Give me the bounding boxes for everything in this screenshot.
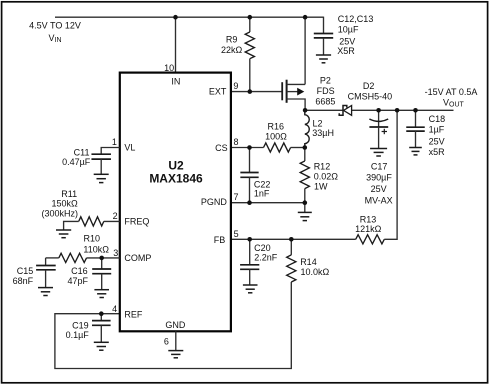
capacitor C17 <box>369 110 388 148</box>
node top rail / P2 source <box>303 15 308 20</box>
label MAX1846 <box>149 172 203 186</box>
svg-text:R16: R16 <box>268 121 285 131</box>
node COMP / C16 <box>99 256 104 261</box>
label VIN <box>48 33 61 44</box>
wire REF loop <box>55 282 291 369</box>
svg-text:6685: 6685 <box>315 97 335 107</box>
resistor R13 <box>356 235 385 244</box>
pin name GND <box>165 320 186 330</box>
svg-text:D2: D2 <box>363 81 375 91</box>
pin name VL <box>124 143 135 153</box>
svg-text:5: 5 <box>234 229 239 239</box>
ground R11 <box>56 230 71 238</box>
svg-text:10.0kΩ: 10.0kΩ <box>301 267 330 277</box>
wire VL pin 1 <box>101 148 120 155</box>
inductor L2 <box>305 110 309 147</box>
label 25V C17 <box>371 184 387 194</box>
label R11 <box>61 189 77 199</box>
transistor P2 gate bar <box>281 82 283 100</box>
label 10uF <box>338 25 359 35</box>
label C15 <box>17 266 34 276</box>
label 2.2nF <box>254 253 278 263</box>
svg-text:C16: C16 <box>71 266 88 276</box>
svg-text:4.5V TO 12V: 4.5V TO 12V <box>29 21 81 31</box>
label 1nF <box>254 189 270 199</box>
capacitor C16 <box>92 258 111 290</box>
svg-text:110kΩ: 110kΩ <box>83 245 109 255</box>
node VOUT / FB riser <box>395 108 400 113</box>
svg-text:C11: C11 <box>74 147 90 157</box>
node VOUT / C17 <box>376 108 381 113</box>
wire CS pin 8 segment <box>231 147 264 149</box>
wire P2 source drop <box>304 17 306 85</box>
transistor P2 top arm <box>287 83 306 85</box>
label 150k <box>51 199 78 209</box>
label R14 <box>300 257 317 267</box>
svg-text:8: 8 <box>234 137 239 147</box>
label input voltage 4.5V TO 12V <box>29 21 81 31</box>
svg-text:COMP: COMP <box>124 253 151 263</box>
label 0.47uF <box>62 157 91 167</box>
svg-text:X5R: X5R <box>337 46 355 56</box>
label R10 <box>84 233 101 243</box>
svg-text:2.2nF: 2.2nF <box>254 253 278 263</box>
wire R13 to feedback riser <box>384 110 397 239</box>
diode D2 triangle <box>344 106 352 116</box>
svg-text:C12,C13: C12,C13 <box>338 14 374 24</box>
wire C12,C13 drop from top rail <box>323 17 325 34</box>
svg-text:EXT: EXT <box>209 87 227 97</box>
capacitor C22 <box>240 148 258 203</box>
node REF / C19 <box>99 311 104 316</box>
svg-text:25V: 25V <box>339 36 355 46</box>
svg-text:47pF: 47pF <box>67 276 88 286</box>
node top rail / R9 <box>248 15 253 20</box>
svg-text:VL: VL <box>124 143 135 153</box>
label x5R <box>429 147 446 157</box>
svg-text:C20: C20 <box>254 243 271 253</box>
svg-text:PGND: PGND <box>201 197 228 207</box>
resistor R10 <box>46 253 120 262</box>
label C17 <box>371 161 388 171</box>
svg-text:C18: C18 <box>429 114 446 124</box>
label 1W <box>314 181 328 191</box>
pin number 10 <box>164 63 174 73</box>
svg-text:25V: 25V <box>371 184 387 194</box>
label -15V AT 0.5A <box>425 87 478 97</box>
pin number 9 <box>233 81 238 91</box>
svg-text:22kΩ: 22kΩ <box>221 45 243 55</box>
label X5R C12 <box>337 46 355 56</box>
svg-text:CMSH5-40: CMSH5-40 <box>348 91 393 101</box>
node EXT / R9 <box>248 89 253 94</box>
svg-text:C17: C17 <box>371 161 388 171</box>
wire R16 to node <box>291 147 305 149</box>
svg-text:GND: GND <box>165 320 186 330</box>
pin name FREQ <box>124 216 149 226</box>
pin number 2 <box>113 211 118 221</box>
label C20 <box>254 243 271 253</box>
wire VIN top rail <box>55 16 324 18</box>
pin number 5 <box>234 229 239 239</box>
pin name EXT <box>209 87 227 97</box>
label C22 <box>254 180 271 190</box>
svg-text:R12: R12 <box>314 161 331 171</box>
op-amp U2 MAX1846 IC body <box>120 73 231 332</box>
label MV-AX <box>365 195 393 205</box>
svg-text:MV-AX: MV-AX <box>365 195 393 205</box>
node CS / C22 <box>247 145 252 150</box>
label VOUT <box>443 98 465 109</box>
wire diode to VOUT <box>351 109 453 111</box>
svg-text:R13: R13 <box>360 215 377 225</box>
label 121k <box>355 224 382 234</box>
pin number 7 <box>234 192 239 202</box>
capacitor C12,C13 <box>314 34 333 56</box>
svg-text:1nF: 1nF <box>254 189 270 199</box>
wire EXT pin 9 to gate <box>231 91 282 93</box>
svg-text:4: 4 <box>112 304 117 314</box>
label C18 <box>429 114 446 124</box>
label FDS <box>317 86 335 96</box>
label 68nF <box>13 276 34 286</box>
svg-text:FB: FB <box>214 235 226 245</box>
wire pin 10 IN stub <box>175 17 177 72</box>
svg-text:1µF: 1µF <box>429 125 445 135</box>
wire drain node to diode <box>305 109 343 111</box>
label L2 <box>313 118 323 128</box>
transistor P2 channel bar <box>286 80 288 103</box>
resistor R12 <box>300 148 309 203</box>
node CS / L2 / R12 <box>303 145 308 150</box>
ground GND pin 6 <box>168 331 183 358</box>
svg-text:150kΩ: 150kΩ <box>51 199 78 209</box>
pin number 4 <box>112 304 117 314</box>
label R16 <box>268 121 285 131</box>
label 47pF <box>67 276 88 286</box>
svg-text:100Ω: 100Ω <box>265 131 287 141</box>
ground C11 <box>94 174 109 182</box>
label 100ohm <box>265 131 287 141</box>
pin name FB <box>214 235 226 245</box>
svg-text:FDS: FDS <box>317 86 335 96</box>
node PGND / R12 <box>303 200 308 205</box>
wire PGND pin 7 <box>231 202 305 204</box>
label R12 <box>314 161 331 171</box>
label 1uF <box>429 125 445 135</box>
svg-text:25V: 25V <box>429 137 445 147</box>
svg-text:CS: CS <box>215 143 228 153</box>
ground PGND node <box>298 203 312 221</box>
capacitor C11 <box>91 154 111 174</box>
capacitor C20 <box>240 239 259 285</box>
diode D2 cathode <box>339 106 347 116</box>
node VOUT / C18 <box>413 108 418 113</box>
svg-text:IN: IN <box>171 77 180 87</box>
label 25V C18 <box>429 137 445 147</box>
svg-text:-15V AT 0.5A: -15V AT 0.5A <box>425 87 478 97</box>
ground C19 <box>94 342 109 350</box>
label D2 <box>363 81 375 91</box>
node P2 drain <box>303 108 308 113</box>
capacitor C18 <box>406 110 425 147</box>
label 22k <box>221 45 243 55</box>
svg-text:1: 1 <box>112 137 117 147</box>
resistor R16 <box>264 143 291 152</box>
svg-text:2: 2 <box>113 211 118 221</box>
svg-text:3: 3 <box>113 248 118 258</box>
svg-text:R10: R10 <box>84 233 101 243</box>
capacitor C15 <box>36 258 56 288</box>
label 25V C12 <box>339 36 355 46</box>
svg-text:R14: R14 <box>300 257 317 267</box>
label 300kHz <box>42 208 79 218</box>
node top rail / IN <box>173 15 178 20</box>
pin number 8 <box>234 137 239 147</box>
svg-text:MAX1846: MAX1846 <box>149 172 203 186</box>
svg-text:0.02Ω: 0.02Ω <box>314 171 339 181</box>
svg-text:0.47µF: 0.47µF <box>62 157 91 167</box>
ground C12,C13 <box>316 55 331 63</box>
svg-text:10: 10 <box>164 63 174 73</box>
svg-text:(300kHz): (300kHz) <box>42 208 79 218</box>
resistor R9 <box>245 17 254 91</box>
label C12,C13 <box>338 14 374 24</box>
label R13 <box>360 215 377 225</box>
svg-text:C15: C15 <box>17 266 34 276</box>
svg-text:9: 9 <box>233 81 238 91</box>
ground C18 <box>409 148 422 155</box>
svg-text:6: 6 <box>164 337 169 347</box>
node FB / C20 <box>247 237 252 242</box>
wire FB pin 5 segment <box>231 238 356 240</box>
svg-text:1W: 1W <box>314 181 328 191</box>
label C19 <box>72 321 89 331</box>
pin name REF <box>124 309 143 319</box>
label CMSH5-40 <box>348 91 393 101</box>
ground C15 <box>38 288 53 296</box>
svg-text:P2: P2 <box>320 75 331 85</box>
svg-text:L2: L2 <box>313 118 323 128</box>
pin name CS <box>215 143 228 153</box>
capacitor C19 <box>92 314 111 343</box>
node PGND / C22 <box>247 200 252 205</box>
label C11 <box>74 147 90 157</box>
ground C17 <box>370 149 387 157</box>
label U2 <box>168 159 184 173</box>
label 6685 <box>315 97 335 107</box>
resistor R11 <box>64 217 120 230</box>
svg-text:390µF: 390µF <box>366 173 392 183</box>
ground C20 <box>243 285 258 293</box>
pin number 3 <box>113 248 118 258</box>
pin name COMP <box>124 253 151 263</box>
svg-text:68nF: 68nF <box>13 276 34 286</box>
pin name IN <box>171 77 180 87</box>
svg-text:7: 7 <box>234 192 239 202</box>
label 390uF <box>366 173 392 183</box>
pin number 1 <box>112 137 117 147</box>
transistor P2 bottom arm <box>287 99 306 110</box>
label P2 <box>320 75 331 85</box>
svg-text:U2: U2 <box>168 159 184 173</box>
ground C16 <box>94 290 109 298</box>
svg-text:R9: R9 <box>226 34 238 44</box>
svg-text:0.1µF: 0.1µF <box>66 330 90 340</box>
svg-text:121kΩ: 121kΩ <box>355 224 382 234</box>
transistor P2 body arm <box>287 91 298 93</box>
svg-text:10µF: 10µF <box>338 25 359 35</box>
resistor R14 <box>287 239 296 282</box>
label R9 <box>226 34 238 44</box>
label 0.02ohm <box>314 171 339 181</box>
label 10.0k <box>301 267 330 277</box>
pin number 6 <box>164 337 169 347</box>
svg-text:REF: REF <box>124 309 143 319</box>
label C16 <box>71 266 88 276</box>
svg-text:R11: R11 <box>61 189 77 199</box>
svg-text:FREQ: FREQ <box>124 216 149 226</box>
svg-text:x5R: x5R <box>429 147 446 157</box>
pin name PGND <box>201 197 228 207</box>
label 110k <box>83 245 109 255</box>
transistor P2 arrow <box>297 88 304 96</box>
label 0.1uF <box>66 330 90 340</box>
node FB / R14 <box>289 237 294 242</box>
label 33uH <box>312 128 334 138</box>
svg-text:33µH: 33µH <box>312 128 334 138</box>
